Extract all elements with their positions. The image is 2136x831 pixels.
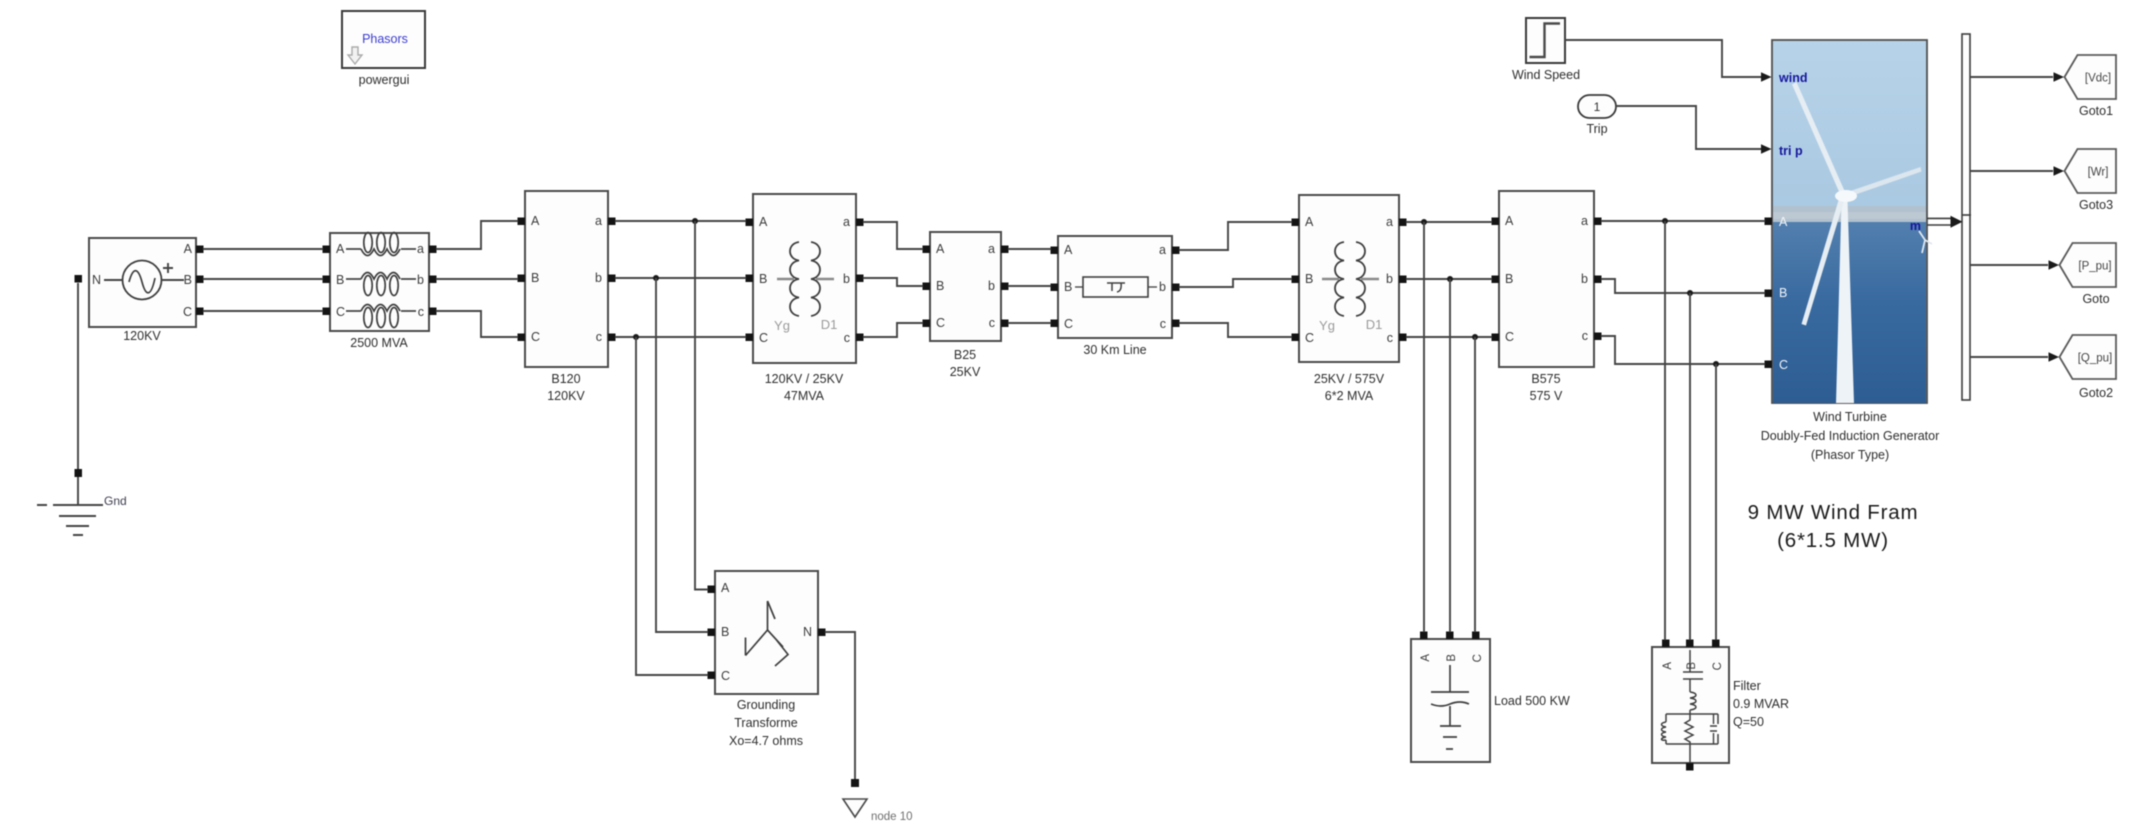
wire T1 b to B25 B: [863, 278, 923, 286]
svg-text:6*2 MVA: 6*2 MVA: [1325, 389, 1374, 403]
svg-text:47MVA: 47MVA: [784, 389, 825, 403]
svg-text:9 MW Wind Fram: 9 MW Wind Fram: [1748, 501, 1919, 524]
wire line c to T2 C: [1179, 323, 1292, 337]
svg-text:a: a: [595, 214, 602, 228]
svg-text:m: m: [1910, 219, 1921, 233]
svg-text:Wind Turbine: Wind Turbine: [1813, 410, 1887, 424]
coil row A: [346, 233, 416, 256]
svg-text:B: B: [1064, 280, 1072, 294]
wire junction b to grounding B: [656, 278, 708, 632]
blade down-left: [1802, 197, 1845, 326]
svg-text:A: A: [1505, 214, 1514, 228]
annotation 9 MW: [1748, 501, 1919, 552]
nacelle: [1835, 190, 1857, 202]
svg-text:A: A: [184, 242, 193, 256]
wire bar to P_pu: [1970, 264, 2048, 266]
wire junction a2 to load A: [1423, 222, 1425, 632]
svg-text:D1: D1: [821, 317, 838, 332]
svg-text:N: N: [92, 273, 101, 287]
svg-text:A: A: [531, 214, 540, 228]
svg-text:A: A: [721, 581, 730, 595]
svg-text:[P_pu]: [P_pu]: [2078, 261, 2111, 273]
wire bar to Vdc: [1970, 76, 2053, 78]
constant Trip: [1578, 95, 1616, 136]
svg-text:b: b: [988, 279, 995, 293]
blade right: [1846, 167, 1922, 198]
svg-text:a: a: [1386, 215, 1393, 229]
load 500 KW: [1411, 632, 1570, 763]
wire impedance b to B120 B: [436, 278, 518, 280]
goto Q_pu: [2060, 335, 2117, 400]
wire T1 c to B25 C: [863, 323, 923, 337]
junction node c3: [1713, 361, 1719, 367]
svg-text:b: b: [1386, 272, 1393, 286]
svg-text:A: A: [336, 242, 345, 256]
svg-text:N: N: [803, 625, 812, 639]
svg-text:c: c: [844, 331, 850, 345]
svg-text:B575: B575: [1531, 372, 1560, 386]
wire B575 a to WT A: [1601, 220, 1765, 222]
svg-text:575 V: 575 V: [1530, 389, 1563, 403]
svg-text:b: b: [1581, 272, 1588, 286]
svg-text:Goto1: Goto1: [2079, 104, 2113, 118]
svg-text:(6*1.5 MW): (6*1.5 MW): [1777, 529, 1889, 552]
svg-text:B: B: [759, 272, 767, 286]
svg-text:a: a: [417, 242, 424, 256]
wire B120 b to T1 B: [615, 277, 746, 279]
svg-text:B: B: [936, 279, 944, 293]
junction node b: [653, 275, 659, 281]
svg-text:b: b: [1159, 280, 1166, 294]
junction node a: [692, 218, 698, 224]
svg-text:30 Km Line: 30 Km Line: [1083, 343, 1146, 357]
svg-text:C: C: [759, 331, 768, 345]
svg-text:c: c: [1160, 317, 1166, 331]
transformer T2 25KV/575V: [1292, 195, 1407, 403]
svg-text:(Phasor Type): (Phasor Type): [1811, 448, 1889, 462]
wire junction a to grounding A: [695, 221, 708, 590]
wire T2 c to B575 C: [1406, 336, 1492, 338]
wire line a to T2 A: [1179, 222, 1292, 250]
svg-text:Yg: Yg: [1319, 318, 1335, 333]
svg-text:Wind Speed: Wind Speed: [1512, 68, 1580, 82]
wire wind speed to WT wind: [1565, 40, 1762, 77]
blade up-left: [1792, 82, 1846, 195]
turbine tower: [1836, 200, 1854, 403]
svg-text:Yg: Yg: [774, 318, 790, 333]
junction node a2: [1421, 219, 1427, 225]
svg-text:Q=50: Q=50: [1733, 715, 1764, 729]
svg-text:C: C: [1064, 317, 1073, 331]
svg-text:B: B: [531, 271, 539, 285]
30 Km Line block: [1051, 236, 1180, 357]
wire impedance a to B120 A: [436, 221, 518, 249]
svg-text:A: A: [1064, 243, 1073, 257]
svg-text:B: B: [721, 625, 729, 639]
wire source B to impedance B: [203, 278, 323, 280]
svg-text:A: A: [759, 215, 768, 229]
wire Trip to WT trip: [1616, 106, 1762, 149]
wire B575 c to WT C: [1601, 336, 1765, 364]
goto Wr: [2065, 149, 2117, 212]
wire B25 c to line C: [1008, 322, 1051, 324]
wire m output: [1927, 215, 1971, 228]
bus selector bar: [1962, 34, 1970, 400]
svg-text:Grounding: Grounding: [737, 698, 795, 712]
svg-text:Goto2: Goto2: [2079, 386, 2113, 400]
svg-text:C: C: [183, 305, 192, 319]
svg-text:C: C: [531, 330, 540, 344]
goto P_pu: [2060, 243, 2117, 306]
svg-text:node 10: node 10: [871, 811, 913, 823]
svg-text:B: B: [1305, 272, 1313, 286]
wind turbine DFIG block: [1761, 40, 1940, 462]
svg-text:[Wr]: [Wr]: [2088, 167, 2109, 179]
voltage source 120KV: [75, 238, 204, 343]
junction node b2: [1447, 276, 1453, 282]
svg-text:b: b: [417, 273, 424, 287]
svg-text:C: C: [1712, 662, 1724, 670]
distant turbine: [1919, 231, 1932, 253]
svg-text:1: 1: [1594, 100, 1601, 114]
svg-text:a: a: [1159, 243, 1166, 257]
svg-text:D1: D1: [1366, 317, 1383, 332]
wire B120 c to T1 C: [615, 336, 746, 338]
svg-text:C: C: [1305, 331, 1314, 345]
svg-text:c: c: [1582, 329, 1588, 343]
svg-text:C: C: [936, 316, 945, 330]
junction node a3: [1662, 218, 1668, 224]
svg-text:c: c: [418, 305, 424, 319]
wire B25 b to line B: [1008, 285, 1051, 287]
wire junction c3 to filter C: [1715, 364, 1717, 640]
wire T2 b to B575 B: [1406, 278, 1492, 280]
svg-text:B: B: [1779, 286, 1787, 300]
svg-text:powergui: powergui: [359, 73, 410, 87]
svg-text:Goto: Goto: [2082, 292, 2109, 306]
wire junction b3 to filter B: [1689, 293, 1691, 640]
svg-text:Load 500 KW: Load 500 KW: [1494, 694, 1570, 708]
svg-text:wind: wind: [1778, 71, 1807, 85]
svg-text:a: a: [843, 215, 850, 229]
svg-text:A: A: [1662, 662, 1674, 670]
svg-text:25KV: 25KV: [950, 365, 981, 379]
svg-text:2500 MVA: 2500 MVA: [350, 336, 408, 350]
wire junction a3 to filter A: [1664, 221, 1666, 640]
wire junction b2 to load B: [1449, 279, 1451, 632]
svg-text:B: B: [184, 273, 192, 287]
svg-text:Trip: Trip: [1586, 122, 1607, 136]
wire source C to impedance C: [203, 310, 323, 312]
wire line b to T2 B: [1179, 279, 1292, 287]
three-phase source impedance 2500 MVA: [323, 233, 437, 351]
svg-text:120KV: 120KV: [123, 329, 161, 343]
svg-text:B: B: [336, 273, 344, 287]
wire bar to Q_pu: [1970, 356, 2048, 358]
svg-text:B25: B25: [954, 348, 976, 362]
bus B120: [518, 191, 616, 403]
wire B25 a to line A: [1008, 248, 1051, 250]
svg-text:0.9 MVAR: 0.9 MVAR: [1733, 697, 1789, 711]
wire junction c2 to load C: [1474, 337, 1476, 632]
svg-text:120KV: 120KV: [547, 389, 585, 403]
svg-text:a: a: [1581, 214, 1588, 228]
svg-text:A: A: [1779, 215, 1788, 229]
powergui block: [342, 11, 425, 87]
svg-text:25KV / 575V: 25KV / 575V: [1314, 372, 1385, 386]
filter block: [1652, 640, 1789, 771]
svg-text:B120: B120: [551, 372, 580, 386]
node 10: [825, 632, 913, 823]
svg-text:Gnd: Gnd: [104, 494, 127, 508]
wire junction c to grounding C: [636, 337, 708, 675]
wire impedance c to B120 C: [436, 311, 518, 337]
wire T1 a to B25 A: [863, 222, 923, 249]
svg-text:C: C: [721, 669, 730, 683]
svg-text:A: A: [1420, 654, 1432, 662]
bus B575: [1492, 191, 1602, 403]
svg-text:Filter: Filter: [1733, 679, 1761, 693]
svg-text:tri p: tri p: [1779, 144, 1803, 158]
junction node c: [633, 334, 639, 340]
wire B575 b to WT B: [1601, 279, 1765, 293]
svg-text:Doubly-Fed Induction Generator: Doubly-Fed Induction Generator: [1761, 429, 1940, 443]
coil row C: [346, 305, 416, 328]
bus B25: [923, 232, 1009, 379]
svg-text:[Vdc]: [Vdc]: [2085, 73, 2111, 85]
wire T2 a to B575 A: [1406, 221, 1492, 223]
wire source A to impedance A: [203, 248, 323, 250]
svg-text:c: c: [989, 316, 995, 330]
svg-text:B: B: [1686, 662, 1698, 670]
junction node b3: [1687, 290, 1693, 296]
svg-text:[Q_pu]: [Q_pu]: [2078, 353, 2113, 365]
svg-text:A: A: [936, 242, 945, 256]
svg-text:A: A: [1305, 215, 1314, 229]
svg-text:C: C: [1505, 330, 1514, 344]
svg-text:C: C: [336, 305, 345, 319]
svg-text:c: c: [596, 330, 602, 344]
ground Gnd: [37, 283, 127, 535]
svg-text:C: C: [1472, 654, 1484, 662]
svg-text:Transforme: Transforme: [734, 716, 797, 730]
svg-text:B: B: [1446, 654, 1458, 662]
svg-text:Xo=4.7 ohms: Xo=4.7 ohms: [729, 734, 803, 748]
wind speed step source: [1512, 18, 1580, 82]
svg-text:a: a: [988, 242, 995, 256]
coil row B: [346, 273, 416, 296]
goto Vdc: [2065, 55, 2117, 118]
svg-text:Phasors: Phasors: [362, 32, 408, 46]
svg-text:B: B: [1505, 272, 1513, 286]
wire B120 a to T1 A: [615, 220, 746, 222]
svg-text:120KV / 25KV: 120KV / 25KV: [765, 372, 844, 386]
svg-text:C: C: [1779, 358, 1788, 372]
transformer T1 120KV/25KV: [746, 194, 864, 403]
svg-text:b: b: [595, 271, 602, 285]
svg-text:b: b: [843, 272, 850, 286]
grounding transformer: [708, 571, 826, 748]
wire bar to Wr: [1970, 170, 2053, 172]
junction node c2: [1472, 334, 1478, 340]
svg-text:c: c: [1387, 331, 1393, 345]
svg-text:Goto3: Goto3: [2079, 198, 2113, 212]
